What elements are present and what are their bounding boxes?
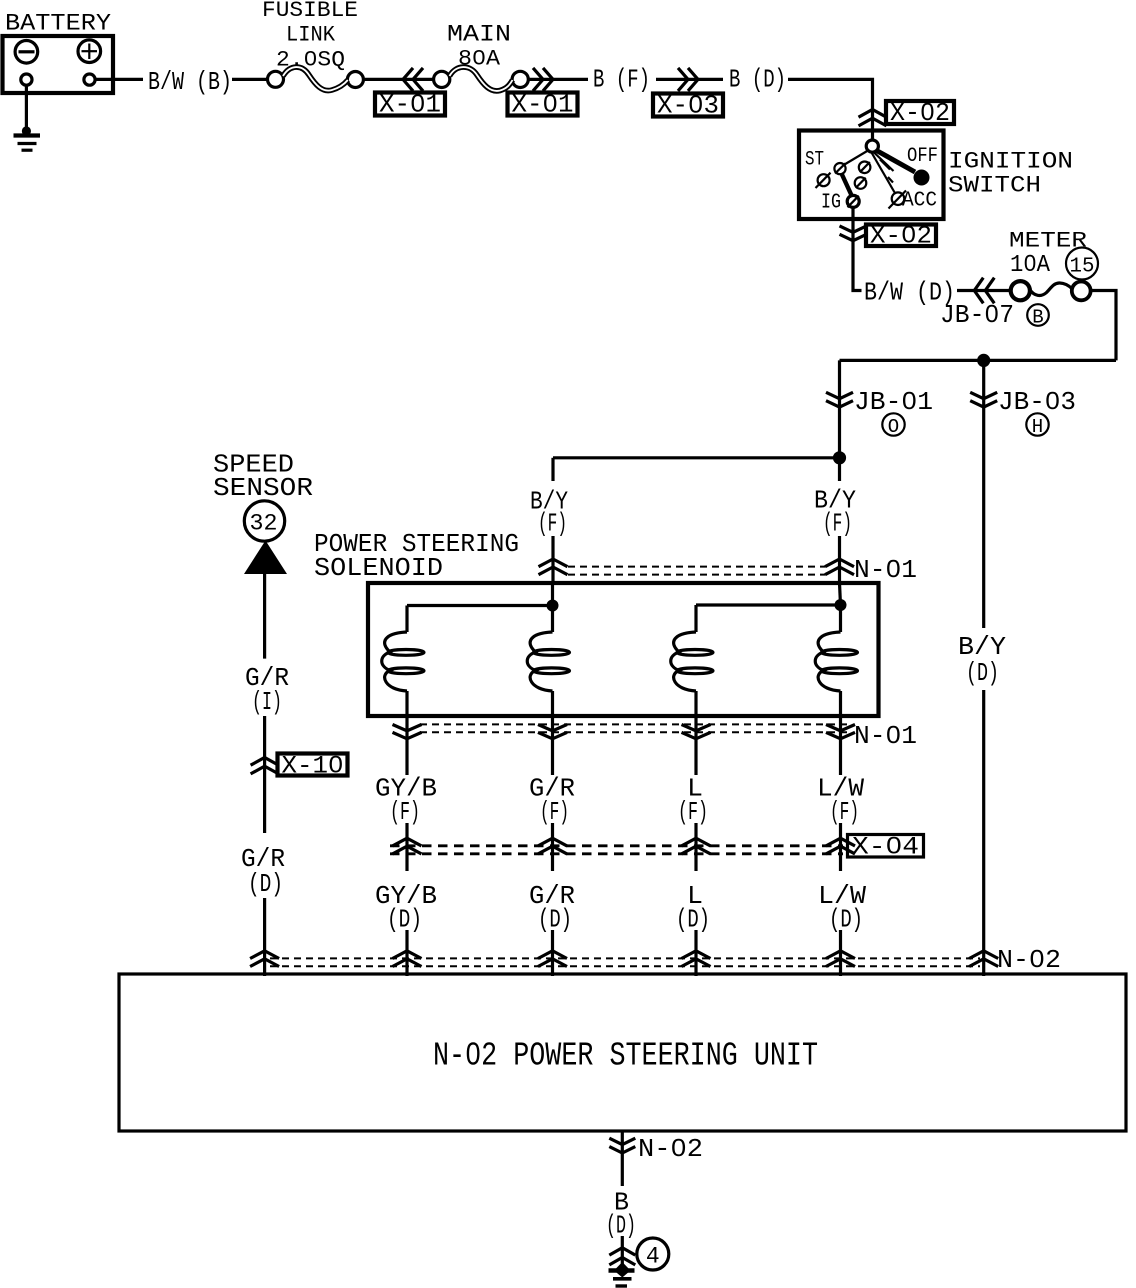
connector chevron X-10 bbox=[251, 758, 279, 774]
wire coil 2 to box bottom bbox=[551, 691, 554, 775]
svg-text:(D): (D) bbox=[966, 658, 999, 688]
solenoid coil 2 bbox=[527, 632, 569, 691]
main fuse 80A bbox=[434, 67, 529, 91]
wire to ground bbox=[621, 1236, 624, 1268]
ground number circle 4 bbox=[637, 1238, 669, 1270]
wire B (D) to ignition switch bbox=[788, 79, 873, 140]
solenoid coil 1 bbox=[382, 632, 424, 691]
svg-text:(D): (D) bbox=[829, 905, 863, 935]
svg-text:X-01: X-01 bbox=[512, 90, 574, 120]
wire down to coil 1 bbox=[405, 606, 408, 633]
wire down to coil 3 bbox=[694, 605, 697, 632]
svg-text:N-01: N-01 bbox=[854, 555, 917, 585]
svg-text:LINK: LINK bbox=[286, 23, 336, 48]
svg-text:N-01: N-01 bbox=[854, 721, 917, 751]
wire inner horizontal left pair bbox=[407, 604, 553, 607]
connector chevron ground bbox=[609, 1248, 635, 1265]
svg-text:(F): (F) bbox=[390, 797, 420, 827]
svg-text:X-02: X-02 bbox=[890, 98, 950, 128]
battery bbox=[3, 36, 114, 93]
wire down to coil 4 bbox=[839, 605, 842, 632]
svg-text:MAIN: MAIN bbox=[447, 22, 511, 48]
connector chevron JB-01 bbox=[826, 392, 853, 407]
svg-text:(F): (F) bbox=[678, 797, 708, 827]
upper contact bbox=[834, 163, 845, 174]
svg-text:ACC: ACC bbox=[902, 190, 937, 213]
wire coil 4 to box bottom bbox=[839, 691, 842, 775]
wire battery negative to ground bbox=[25, 86, 28, 135]
wire cross horizontal to left B/Y bbox=[553, 456, 840, 459]
connector chevron N-01 left bbox=[539, 559, 568, 575]
wire right B/Y into solenoid bbox=[838, 536, 841, 583]
svg-text:FUSIBLE: FUSIBLE bbox=[262, 0, 358, 23]
connector chevron X-03 bbox=[678, 68, 698, 91]
wire left B/Y down bbox=[551, 458, 554, 481]
wire down to coil 2 bbox=[551, 606, 554, 633]
svg-text:X-03: X-03 bbox=[657, 91, 719, 121]
connector box X-02 top bbox=[886, 98, 954, 128]
connector chevron JB-07 bbox=[974, 278, 994, 304]
svg-text:(F): (F) bbox=[540, 797, 569, 827]
svg-text:SENSOR: SENSOR bbox=[213, 473, 313, 503]
wire speed sensor down bbox=[263, 574, 266, 659]
connector chevrons X-04 row bbox=[393, 838, 856, 854]
wire battery positive output bbox=[96, 78, 144, 81]
svg-text:N-02: N-02 bbox=[638, 1134, 703, 1164]
svg-text:H: H bbox=[1032, 416, 1043, 438]
wire B/W (D) to meter fuse bbox=[957, 289, 1012, 292]
connector box X-01 left bbox=[375, 90, 445, 120]
arm to ACC contact bbox=[872, 153, 896, 195]
wire B (F) segment bbox=[656, 78, 723, 81]
svg-text:B (D): B (D) bbox=[729, 65, 786, 95]
svg-text:X-01: X-01 bbox=[379, 90, 441, 120]
connector chevron N-01 right bbox=[825, 559, 854, 575]
svg-text:4: 4 bbox=[646, 1244, 660, 1270]
ACC contact bbox=[892, 192, 905, 205]
wire segments between N-01 and X-04 bbox=[405, 823, 408, 871]
connector chevron X-02 bottom bbox=[840, 226, 867, 241]
svg-text:ST: ST bbox=[805, 149, 824, 172]
contact b bbox=[859, 162, 871, 174]
ST contact bbox=[818, 174, 830, 186]
junction block circle B bbox=[1027, 304, 1049, 328]
svg-text:15: 15 bbox=[1070, 256, 1095, 279]
wire right B/Y stub inside box bbox=[840, 583, 841, 605]
svg-text:(I): (I) bbox=[252, 687, 282, 717]
dashed connector line N-01 bottom bbox=[420, 723, 850, 725]
wire unit bottom output bbox=[621, 1131, 624, 1186]
wire speed sensor to unit bbox=[263, 898, 266, 976]
junction node on left branch bbox=[833, 451, 846, 464]
svg-text:B/W (B): B/W (B) bbox=[148, 67, 232, 97]
svg-text:O: O bbox=[888, 416, 899, 438]
junction block circle O bbox=[882, 413, 904, 438]
junction block circle H bbox=[1026, 413, 1048, 438]
connector chevron X-01 left bbox=[403, 68, 423, 91]
svg-text:(D): (D) bbox=[538, 905, 572, 935]
wire left B/Y stub inside box bbox=[551, 583, 554, 606]
wiper arm to OFF position bbox=[877, 151, 916, 173]
connector box X-03 bbox=[653, 91, 723, 121]
connector chevron N-02 bottom bbox=[609, 1138, 635, 1153]
speed sensor circle 32 bbox=[244, 501, 284, 541]
fusible link 2.0SQ bbox=[268, 67, 364, 91]
svg-text:32: 32 bbox=[250, 511, 278, 537]
wire meter fuse to right corner bbox=[1090, 291, 1116, 361]
svg-text:N-02 POWER STEERING UNIT: N-02 POWER STEERING UNIT bbox=[433, 1038, 818, 1075]
wire left branch down from bus bbox=[838, 360, 841, 481]
svg-text:(D): (D) bbox=[676, 905, 710, 935]
svg-text:10A: 10A bbox=[1010, 252, 1051, 279]
ground (battery) bbox=[14, 126, 41, 150]
svg-text:(D): (D) bbox=[248, 869, 283, 899]
wiper thick arm to IG bbox=[842, 174, 853, 198]
svg-text:(D): (D) bbox=[387, 905, 422, 935]
wire right branch B/Y (D) to unit bbox=[982, 690, 985, 976]
svg-text:(F): (F) bbox=[830, 797, 859, 827]
connector chevron JB-03 bbox=[970, 392, 997, 407]
ignition switch box bbox=[799, 131, 944, 220]
power steering unit box N-02 bbox=[119, 974, 1126, 1131]
wire segments into unit bbox=[405, 930, 408, 976]
svg-text:IGNITION: IGNITION bbox=[948, 149, 1073, 175]
wire left B/Y into solenoid bbox=[551, 536, 554, 583]
svg-text:BATTERY: BATTERY bbox=[5, 11, 111, 37]
svg-text:B: B bbox=[1032, 307, 1043, 329]
solenoid coil 3 bbox=[671, 632, 713, 691]
zero glyph dot erasers bbox=[308, 54, 1055, 1150]
junction node left pair bbox=[547, 600, 559, 612]
ACC contact slash bbox=[889, 191, 907, 209]
wire horizontal bus bbox=[840, 359, 1117, 362]
contact c bbox=[855, 177, 867, 189]
fuse number circle 15 bbox=[1066, 248, 1098, 280]
connector box X-10 bbox=[278, 752, 348, 781]
ignition switch internals bbox=[805, 140, 938, 215]
junction node bbox=[977, 354, 990, 367]
svg-text:X-04: X-04 bbox=[852, 833, 919, 862]
svg-text:SWITCH: SWITCH bbox=[948, 173, 1041, 199]
connector chevrons N-02 row bbox=[250, 951, 998, 967]
thin arm pivot to upper contact bbox=[845, 151, 869, 165]
solenoid coil 4 bbox=[815, 632, 857, 691]
pivot contact bbox=[866, 140, 878, 152]
wire ignition IG output down bbox=[853, 208, 862, 291]
wire speed sensor mid bbox=[263, 716, 266, 833]
svg-text:(F): (F) bbox=[823, 509, 852, 539]
wire coil 3 to box bottom bbox=[694, 691, 697, 775]
thin arm toward ACC bbox=[874, 153, 894, 172]
svg-text:SOLENOID: SOLENOID bbox=[314, 553, 443, 583]
fuse METER 10A bbox=[1011, 281, 1091, 300]
speed sensor arrow bbox=[244, 541, 287, 575]
dashed key travel marks bbox=[880, 160, 890, 170]
connector box X-04 bbox=[848, 833, 924, 862]
wire right branch down from junction bbox=[982, 360, 985, 628]
dashed connector line X-04 bbox=[390, 844, 843, 847]
ground (bottom) bbox=[609, 1262, 635, 1286]
wire label to fusible link bbox=[232, 78, 269, 81]
wire coil 1 to box bottom bbox=[405, 691, 408, 775]
connector box X-02 bottom bbox=[866, 222, 936, 251]
connector box X-01 right bbox=[508, 90, 578, 120]
connector chevrons N-01 bottom bbox=[393, 725, 856, 739]
OFF contact (filled) bbox=[914, 170, 930, 186]
dashed connector line N-01 top bbox=[568, 566, 825, 568]
junction node right pair bbox=[835, 599, 847, 611]
svg-text:JB-07: JB-07 bbox=[940, 300, 1014, 330]
svg-text:X-02: X-02 bbox=[870, 222, 932, 251]
svg-text:X-10: X-10 bbox=[282, 752, 344, 781]
power steering solenoid box bbox=[368, 583, 879, 716]
wire fusible link to main fuse bbox=[363, 78, 434, 81]
svg-text:IG: IG bbox=[821, 192, 841, 215]
connector chevron X-02 top bbox=[859, 110, 887, 126]
svg-text:B (F): B (F) bbox=[593, 65, 650, 95]
svg-text:OFF: OFF bbox=[907, 145, 938, 168]
dashed connector line N-02 bbox=[270, 957, 980, 959]
wire main fuse to B (F) bbox=[528, 78, 588, 81]
connector chevron X-01 right bbox=[533, 68, 553, 91]
svg-text:N-02: N-02 bbox=[997, 945, 1061, 975]
IG contact bbox=[847, 195, 859, 207]
svg-text:(F): (F) bbox=[538, 509, 567, 539]
wire inner horizontal right pair bbox=[696, 603, 841, 606]
